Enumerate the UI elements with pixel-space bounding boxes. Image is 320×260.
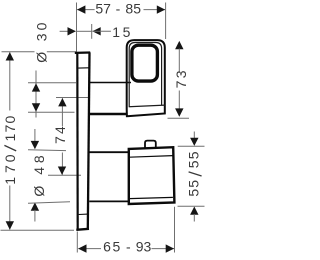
escutcheon plate front edge bbox=[88, 52, 90, 228]
slash of 170/170 bbox=[4, 145, 16, 151]
svg-text:65 - 93: 65 - 93 bbox=[103, 238, 151, 254]
escutcheon plate seam bottom bbox=[79, 213, 89, 215]
escutcheon plate back edge bbox=[76, 53, 79, 229]
wire: Ø48 top extension (slanted) bbox=[28, 149, 66, 152]
dimension 74 bbox=[52, 98, 68, 175]
dimension Ø 48 bbox=[31, 129, 47, 222]
wire: handle-front extension line top right bbox=[165, 3, 167, 40]
dimension 57 - 85 bbox=[77, 1, 165, 17]
escutcheon plate seam top bbox=[78, 67, 89, 69]
upper handle bottom bevel line bbox=[129, 105, 165, 107]
lower valve neck top line bbox=[89, 151, 128, 153]
wire: upper axis line bbox=[56, 97, 88, 99]
wire: neck bottom extension line left bbox=[28, 111, 75, 113]
upper handle outer body bbox=[127, 40, 165, 116]
dimension 55/55 bbox=[186, 132, 202, 222]
upper valve neck top line bbox=[89, 82, 131, 84]
wire: 55/55 top extension bbox=[178, 145, 205, 147]
dimension 170/170 bbox=[2, 52, 18, 230]
wire: lower axis line bbox=[48, 174, 81, 176]
svg-text:57 - 85: 57 - 85 bbox=[95, 1, 141, 17]
wire: 170/170 bottom extension bbox=[1, 229, 75, 231]
escutcheon plate bottom edge bbox=[76, 229, 89, 230]
lower handle body bbox=[129, 147, 175, 204]
wire: wall extension line top bbox=[76, 3, 78, 52]
wire: 55/55 bottom extension bbox=[178, 205, 205, 207]
upper valve neck bottom line bbox=[89, 113, 127, 115]
lower handle top button bbox=[145, 141, 156, 148]
wire: lower-handle front extension bottom right bbox=[174, 207, 176, 253]
lower valve neck bottom line bbox=[89, 200, 128, 202]
upper handle inner bevel outline bbox=[129, 43, 161, 107]
wire: 73 bottom extension bbox=[168, 117, 190, 119]
dimension 65 - 93 bbox=[78, 238, 174, 254]
lower handle seam bottom bbox=[129, 197, 173, 198]
upper handle ring bbox=[132, 45, 158, 81]
dimension 73 bbox=[173, 41, 189, 117]
dimension 15 bbox=[60, 24, 131, 40]
wire: Ø48 bottom extension (slanted) bbox=[28, 202, 70, 204]
wire: wall extension line bottom bbox=[76, 232, 78, 253]
wire: neck top extension line left bbox=[28, 82, 76, 84]
slash of 55/55 bbox=[189, 172, 202, 176]
lower handle seam top bbox=[129, 156, 173, 158]
dimension Ø 30 bbox=[32, 22, 50, 117]
wire: plate-front extension tick for 15 bbox=[91, 24, 93, 39]
wire: plate top extension line to left bbox=[2, 51, 35, 53]
escutcheon plate top edge bbox=[75, 51, 90, 54]
